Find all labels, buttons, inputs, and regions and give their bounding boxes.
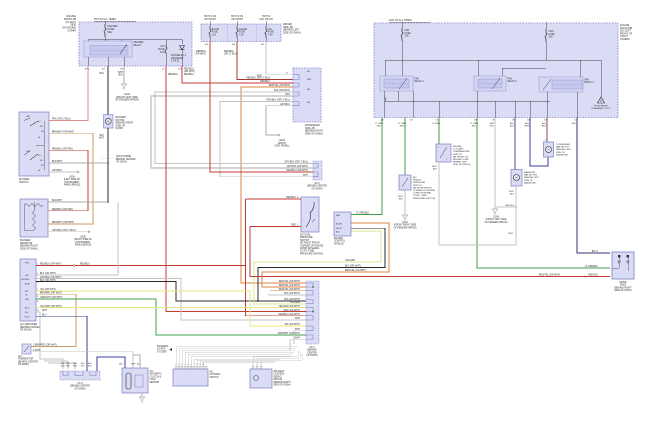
svg-text:RED: RED [542, 126, 547, 128]
svg-text:BLK: BLK [510, 194, 515, 196]
svg-text:RED/YEL: RED/YEL [588, 275, 599, 277]
svg-text:GAUGE: GAUGE [239, 28, 248, 31]
resistor elements [24, 202, 43, 230]
a/c control switch box [173, 366, 208, 386]
svg-text:4: 4 [37, 273, 38, 275]
svg-text:RADIATOR): RADIATOR) [556, 153, 568, 156]
svg-text:IGN: IGN [25, 275, 29, 277]
svg-text:RED/BLU: RED/BLU [184, 74, 194, 76]
condenser fan motor box [544, 142, 554, 157]
svg-text:BLU: BLU [572, 123, 577, 125]
svg-text:J/C 3: J/C 3 [77, 383, 83, 385]
svg-text:BRN/WHT (OR WHT): BRN/WHT (OR WHT) [52, 222, 74, 224]
svg-text:RED/YEL (OR WHT): RED/YEL (OR WHT) [269, 85, 290, 87]
svg-text:BLU: BLU [119, 364, 123, 366]
svg-text:A/C: A/C [25, 290, 29, 293]
svg-text:GRY/BLK (OR WHT): GRY/BLK (OR WHT) [40, 277, 62, 279]
label blower motor [116, 116, 134, 130]
svg-text:RED/YEL (OR WHT): RED/YEL (OR WHT) [345, 270, 366, 272]
svg-text:(BEHIND: (BEHIND [307, 350, 317, 352]
svg-text:FAN: FAN [415, 78, 420, 81]
svg-text:OF DASH: OF DASH [116, 161, 127, 164]
svg-text:RED 1: RED 1 [291, 225, 298, 227]
svg-text:WHT: WHT [303, 175, 309, 177]
svg-text:LOCK: LOCK [24, 317, 30, 319]
svg-text:RED/YEL (OR WHT): RED/YEL (OR WHT) [279, 285, 300, 287]
wire BLK/WHT blower motor down [99, 131, 109, 203]
svg-text:SIDE OF DASH): SIDE OF DASH) [283, 31, 301, 34]
svg-text:10: 10 [37, 301, 39, 303]
wire YEL/GRN amp pin12 to J/C4 [36, 306, 306, 312]
svg-text:SWITCH: SWITCH [19, 181, 29, 184]
svg-text:M: M [516, 177, 518, 180]
svg-text:AIR INLET: AIR INLET [274, 370, 286, 373]
svg-text:J/C 5: J/C 5 [314, 183, 320, 185]
wire RED/BLU a/c fuse long to J/C4 [166, 66, 306, 312]
svg-text:30A: 30A [405, 35, 410, 38]
svg-text:PNK (OR LT BLU): PNK (OR LT BLU) [52, 119, 71, 121]
svg-text:LOCK: LOCK [150, 379, 157, 381]
label a/c amplifier [20, 323, 41, 332]
label J/C4 [307, 347, 318, 357]
svg-text:3: 3 [182, 364, 183, 366]
svg-text:GRN/WHT (OR WHT): GRN/WHT (OR WHT) [278, 333, 301, 335]
svg-text:SIDE OF DASH): SIDE OF DASH) [305, 132, 323, 135]
ground G103 [275, 139, 290, 148]
wire RED/BLU diode branch down [184, 69, 195, 74]
svg-text:OF DASH): OF DASH) [20, 329, 32, 332]
svg-text:FROM RELAY: FROM RELAY [594, 105, 609, 108]
fuse A/C 10A [158, 45, 167, 54]
svg-text:A/C: A/C [150, 370, 154, 373]
svg-text:WHT: WHT [99, 138, 105, 140]
svg-text:WHT: WHT [508, 233, 514, 235]
svg-text:8: 8 [197, 364, 198, 366]
label passenger side J/B [305, 124, 323, 135]
wire LT GRN to coolant switch [432, 118, 440, 145]
svg-text:CIG: CIG [268, 29, 272, 31]
svg-text:RED/YEL (OR WHT): RED/YEL (OR WHT) [279, 289, 300, 291]
wires servo bundle [253, 350, 302, 366]
svg-text:BLK (OR WHT): BLK (OR WHT) [284, 299, 300, 301]
svg-text:RED/BLU: RED/BLU [168, 74, 178, 76]
svg-text:DIODE: DIODE [619, 282, 627, 284]
wire GRY/BLK pJB pin16 to J/C5 pin4 [220, 100, 313, 177]
wire RED/BLU gauge fuse to pJB pin24 [224, 42, 293, 80]
wire RED/YEL orange pJB pin10 down [241, 85, 306, 283]
svg-text:10: 10 [202, 364, 204, 366]
svg-text:G104: G104 [493, 217, 499, 219]
svg-text:1: 1 [176, 364, 177, 366]
svg-text:BLU: BLU [61, 365, 65, 367]
wire BLU clutch pin [97, 357, 125, 371]
svg-text:2 WHT: 2 WHT [33, 350, 41, 352]
wire BLK/WHT switch to motor net [49, 161, 108, 163]
fuse ECU-B [209, 21, 219, 42]
label air inlet servo [274, 370, 292, 387]
label ECM [334, 238, 346, 245]
svg-text:CONTROL: CONTROL [210, 374, 222, 376]
svg-text:GRY/BLK: GRY/BLK [505, 205, 515, 207]
svg-text:INTERIOR: INTERIOR [157, 346, 168, 348]
svg-text:(BEHIND RIGHT: (BEHIND RIGHT [614, 287, 632, 289]
wire BLU/BLK to radiator fan [510, 118, 515, 171]
svg-text:SG: SG [25, 312, 28, 314]
svg-text:BLK: BLK [100, 135, 105, 137]
svg-text:6: 6 [191, 364, 192, 366]
junction block driver side J/B box [201, 24, 281, 42]
svg-text:BLK (OR WHT): BLK (OR WHT) [40, 273, 56, 275]
svg-text:G101: G101 [402, 222, 408, 224]
wire BLU/RED to condenser fan [542, 118, 547, 143]
wire RED/BLU amp pin2 [36, 263, 246, 266]
svg-text:DASH): DASH) [116, 127, 124, 130]
svg-text:7.5A: 7.5A [268, 33, 273, 36]
svg-text:TEMPERATURE: TEMPERATURE [453, 150, 470, 153]
wire relay pins to box edge [88, 53, 182, 66]
svg-text:12: 12 [37, 310, 39, 312]
svg-text:COMP, INTEGRAL: COMP, INTEGRAL [300, 247, 320, 250]
svg-text:FAN MOTOR: FAN MOTOR [524, 174, 537, 177]
wire YEL/GRN ECM to JC4 [254, 231, 381, 304]
junction connector J/C4 [306, 281, 319, 344]
wire RED/BLK switch to resistor [48, 149, 88, 211]
svg-text:RED: RED [73, 365, 78, 367]
svg-text:BLK: BLK [100, 73, 105, 75]
svg-text:RED/BLU: RED/BLU [184, 69, 194, 71]
svg-text:ENGINE: ENGINE [334, 238, 343, 240]
a/c single pressure switch box [399, 175, 411, 190]
svg-text:BLK: BLK [137, 364, 141, 366]
svg-text:YEL: YEL [81, 365, 85, 367]
engine coolant temperature switch box [436, 144, 451, 162]
svg-text:BLK (OR WHT): BLK (OR WHT) [345, 266, 361, 268]
wire RED dual pressure pin2 [250, 225, 610, 278]
svg-text:WHT: WHT [295, 318, 301, 320]
svg-text:INSTRUMENT: INSTRUMENT [75, 242, 91, 244]
wire red vertical dual pressure / J/C4 [245, 199, 306, 316]
wire WHT/BLK to ground G102 [118, 66, 127, 89]
svg-text:A236: A236 [69, 176, 75, 179]
svg-text:WHT: WHT [118, 72, 124, 74]
svg-text:RELAY 1: RELAY 1 [415, 80, 425, 83]
svg-text:INSTRUMENT: INSTRUMENT [64, 182, 80, 184]
wire BRN/RED amp pin8 to thermistor [31, 293, 76, 347]
wire WHT/BLK to G101 [398, 190, 408, 220]
label J/C3 [70, 383, 90, 390]
svg-text:OF FENDER APRON): OF FENDER APRON) [394, 226, 417, 229]
label HOT IN ON OR START 2 [231, 15, 244, 21]
svg-text:COMP): COMP) [68, 30, 77, 33]
svg-text:I4D: I4D [307, 71, 311, 73]
wire BRN/WHT switch to resistor [48, 132, 93, 225]
svg-text:SYSTEM: SYSTEM [157, 351, 167, 353]
wire fuse feed [104, 21, 106, 24]
pin labels bottom [85, 69, 182, 71]
blower switch internals [24, 116, 45, 172]
svg-text:GRY/BLK (OR LT BLU): GRY/BLK (OR LT BLU) [266, 100, 290, 102]
svg-text:SWITCH: SWITCH [210, 377, 219, 379]
svg-text:HOT AT ALL TIMES: HOT AT ALL TIMES [94, 18, 116, 21]
svg-text:MOTOR: MOTOR [274, 379, 283, 381]
svg-text:FAN: FAN [336, 214, 340, 217]
fuse FAN 30A [401, 22, 411, 41]
wire WHT thermistor pin2 [31, 350, 133, 368]
wire GRN/WHT amp pin10 to J/C4 [36, 297, 306, 335]
svg-text:A/C: A/C [18, 355, 22, 358]
wire RED/BLU fuse1 to J/C5 [195, 42, 313, 173]
a/c magnetic clutch box [122, 368, 148, 393]
svg-text:GRY/BLK (OR LT BLU): GRY/BLK (OR LT BLU) [52, 230, 76, 232]
svg-text:10A: 10A [160, 51, 165, 54]
svg-text:SIDE OF DASH): SIDE OF DASH) [274, 384, 291, 387]
svg-text:YEL (OR WHT): YEL (OR WHT) [284, 324, 300, 326]
svg-text:CONTROL: CONTROL [274, 374, 286, 376]
svg-text:BLK: BLK [119, 75, 124, 77]
wire GRY/BLK pJB pin13 to ground G103 [266, 104, 293, 136]
svg-text:RED/BLU: RED/BLU [196, 51, 206, 53]
wire BLK amp pin4 [36, 202, 118, 275]
wire BLK clutch pin [133, 355, 140, 368]
diode fan box [612, 252, 634, 279]
svg-text:GRY/BLK: GRY/BLK [52, 170, 62, 172]
svg-text:WHT: WHT [131, 364, 136, 366]
svg-text:BLK 3: BLK 3 [592, 251, 599, 253]
svg-text:(BEHIND RIGHT: (BEHIND RIGHT [274, 382, 292, 384]
ground G102 label [115, 93, 139, 102]
svg-text:TACH: TACH [336, 227, 342, 230]
svg-text:YEL (OR WHT): YEL (OR WHT) [40, 289, 56, 291]
svg-text:CLUTCH &: CLUTCH & [150, 376, 162, 378]
svg-text:PANEL BRACE): PANEL BRACE) [64, 184, 81, 187]
svg-text:RED/BLU (OR LT BLU): RED/BLU (OR LT BLU) [246, 78, 270, 80]
svg-text:7.5A: 7.5A [239, 33, 244, 36]
label dual pressure switch [300, 234, 324, 256]
svg-text:RED/BLU: RED/BLU [224, 51, 234, 53]
svg-text:(OR WHT): (OR WHT) [184, 71, 195, 73]
svg-text:4: 4 [185, 364, 186, 366]
svg-text:BLK (OR WHT): BLK (OR WHT) [40, 280, 56, 282]
svg-text:2 OF 2): 2 OF 2) [171, 60, 179, 63]
wire radiator fan ground [508, 186, 516, 245]
svg-text:GRY/BLK (OR WHT): GRY/BLK (OR WHT) [287, 166, 309, 168]
wire RED/BLU engine JB to pJB pin15 [182, 66, 293, 83]
svg-text:10A: 10A [212, 33, 217, 36]
svg-text:(LEFT SIDE OF: (LEFT SIDE OF [64, 179, 81, 181]
svg-text:BLK: BLK [472, 126, 477, 128]
svg-text:OR START: OR START [204, 18, 216, 21]
svg-text:2: 2 [179, 364, 180, 366]
fuse CDS 30A [545, 22, 555, 42]
wire BLK branch to ECM [257, 228, 385, 302]
svg-text:ACM: ACM [25, 283, 30, 286]
svg-text:(RIGHT SIDE OF: (RIGHT SIDE OF [74, 239, 92, 241]
svg-text:I4G: I4G [307, 102, 311, 104]
svg-text:5: 5 [37, 282, 38, 284]
wire WHT clutch label [131, 364, 141, 366]
wire BLU to diode fan [572, 118, 610, 254]
svg-text:A/C: A/C [210, 371, 214, 374]
svg-text:BLK (OR WHT): BLK (OR WHT) [274, 90, 290, 92]
svg-text:2: 2 [545, 140, 546, 142]
wire PNK blower switch feed [49, 66, 88, 121]
svg-text:7: 7 [37, 289, 38, 291]
label single pressure switch [413, 176, 436, 200]
wire RED/YEL JC4 pin2 stub [262, 223, 389, 287]
svg-text:HOT AT ALL TIMES: HOT AT ALL TIMES [389, 18, 412, 22]
a/c thermistor box [22, 344, 31, 354]
svg-text:4H: 4H [102, 69, 105, 71]
svg-text:THERMISTOR: THERMISTOR [18, 359, 33, 361]
pin ticks control switch [176, 364, 204, 366]
wire YEL amp pin7 to J/C4 [36, 289, 306, 326]
svg-text:LIGHTS: LIGHTS [157, 349, 166, 351]
wire LT GRN/BLK to diode fan [470, 118, 610, 269]
svg-text:1: 1 [446, 159, 447, 161]
svg-text:BLK/WHT: BLK/WHT [52, 200, 63, 202]
label engine room R/B [620, 24, 633, 41]
svg-text:WHT: WHT [295, 337, 301, 339]
svg-text:J/C 4: J/C 4 [309, 347, 315, 349]
ground G101 label [394, 222, 417, 229]
svg-text:(BEHIND CENTER: (BEHIND CENTER [307, 186, 327, 188]
svg-text:WHT: WHT [525, 126, 531, 128]
wire R/B bus2 [384, 91, 577, 118]
junction block engine room R/B box [374, 23, 618, 118]
wire thermistor pin1 label [33, 345, 57, 347]
svg-text:GRY/BLK: GRY/BLK [280, 104, 290, 106]
wire BLK amp pin6 to J/C4 [36, 280, 306, 301]
a/c amplifier box [20, 259, 36, 321]
label coolant temp switch [453, 146, 471, 166]
wire BLK engine JB to blower motor [100, 66, 108, 115]
svg-text:RED/BLK (OR PNK): RED/BLK (OR PNK) [52, 209, 73, 211]
svg-text:YEL/GRN (OR WHT): YEL/GRN (OR WHT) [40, 306, 62, 308]
svg-text:RED/BLU (OR WHT): RED/BLU (OR WHT) [287, 170, 309, 172]
svg-text:9: 9 [200, 364, 201, 366]
svg-text:BLK: BLK [490, 126, 495, 128]
svg-text:(AT FRONT OF: (AT FRONT OF [453, 155, 469, 158]
svg-text:LO: LO [38, 155, 41, 157]
svg-text:SWITCH: SWITCH [300, 240, 309, 242]
relay FAN RELAY 1 [380, 76, 424, 91]
junction block passenger side J/B box [293, 68, 321, 122]
svg-text:(AT RIGHT FRONT: (AT RIGHT FRONT [300, 242, 320, 245]
svg-text:GRY/BLK (OR LT BLU): GRY/BLK (OR LT BLU) [284, 162, 308, 164]
wire R/B bus1 [385, 41, 601, 97]
svg-text:PRG: PRG [25, 263, 30, 265]
label blower switch [19, 178, 30, 184]
svg-text:M: M [107, 120, 109, 123]
svg-text:RED/BLU: RED/BLU [80, 264, 90, 266]
svg-text:OR START: OR START [231, 18, 243, 21]
wire internal bus [88, 37, 182, 45]
svg-text:GROUND: GROUND [21, 279, 30, 281]
label driver side J/B [283, 23, 301, 34]
blower motor box [104, 115, 114, 132]
wire GRY/BLK resistor to A236 right [48, 230, 91, 233]
svg-text:BRN/WHT (OR WHT): BRN/WHT (OR WHT) [52, 132, 74, 134]
svg-text:BLK: BLK [510, 126, 515, 128]
svg-text:TO A/C TUBE: TO A/C TUBE [413, 194, 427, 197]
label A236 right [74, 236, 92, 247]
relay FAN RELAY 3 [539, 77, 594, 92]
svg-text:(FRONT LEFT SIDE: (FRONT LEFT SIDE [486, 219, 507, 221]
wire LT GRN/BLK ECM fan [351, 118, 382, 215]
svg-text:RELAY: RELAY [134, 44, 142, 47]
wire BLU amp pin14 to J/C3 [36, 315, 87, 372]
svg-text:GRN/WHT (OR WHT): GRN/WHT (OR WHT) [40, 297, 63, 299]
svg-text:RED/BLK (OR PNK): RED/BLK (OR PNK) [52, 149, 73, 151]
svg-text:MODULE: MODULE [334, 243, 344, 245]
fuse HEATER 50A [104, 24, 118, 37]
svg-text:WHT: WHT [42, 310, 48, 312]
svg-text:SIDE OF DASH): SIDE OF DASH) [20, 247, 38, 250]
junction connector J/C3 [60, 371, 100, 380]
svg-text:FUSE: FUSE [212, 32, 219, 34]
wire WHT amp pin13 [36, 310, 63, 359]
svg-text:YEL/GRN: YEL/GRN [345, 260, 355, 262]
svg-text:RADIATOR): RADIATOR) [524, 181, 536, 184]
svg-text:LT GRN/BLK: LT GRN/BLK [356, 213, 370, 215]
label A236 left [64, 176, 81, 187]
svg-text:A/C: A/C [413, 176, 417, 179]
svg-text:RED/BLU: RED/BLU [260, 81, 270, 83]
wire BLK(OR WHT) pJB pin21 to J/C5 [155, 90, 313, 164]
svg-text:PRESSURE SWITCH): PRESSURE SWITCH) [300, 253, 323, 255]
label a/c control switch [210, 371, 222, 379]
wire WHT cig fuse to pJB pin27 [257, 42, 293, 78]
svg-text:TOWER): TOWER) [620, 38, 630, 41]
svg-text:(DIAGRAM 1 OF 2): (DIAGRAM 1 OF 2) [592, 107, 611, 110]
wire RED/BLU dual pressure pin1 [246, 197, 302, 199]
svg-text:RED: RED [66, 365, 71, 367]
svg-text:WHT: WHT [295, 329, 301, 331]
svg-text:FAN: FAN [508, 78, 513, 81]
junction block engine room J/B box [62, 15, 192, 66]
svg-text:FUSE: FUSE [239, 32, 246, 34]
svg-text:PRESSURE SWITCH): PRESSURE SWITCH) [413, 198, 435, 200]
svg-text:LT GRN/BLK: LT GRN/BLK [585, 266, 599, 268]
svg-text:CORNER OF ENGINE: CORNER OF ENGINE [300, 245, 324, 247]
svg-text:7H 2: 7H 2 [120, 69, 125, 71]
svg-text:ACC OR ON: ACC OR ON [259, 18, 273, 21]
label dash wire boundary [101, 155, 136, 164]
svg-text:YEL/GRN (OR WHT): YEL/GRN (OR WHT) [278, 306, 300, 308]
svg-text:BLK (OR WHT): BLK (OR WHT) [284, 293, 300, 295]
svg-text:BRN/RED (OR WHT): BRN/RED (OR WHT) [40, 293, 62, 295]
svg-text:A/C DUAL: A/C DUAL [300, 234, 311, 237]
svg-text:KICK PANEL): KICK PANEL) [275, 145, 290, 148]
svg-text:OF DASH): OF DASH) [75, 387, 86, 390]
label a/c magnetic clutch [150, 370, 162, 384]
radiator fan motor box [511, 170, 522, 187]
blower resistor box [20, 199, 48, 237]
svg-text:YEL/GRN: YEL/GRN [290, 302, 300, 304]
relay FAN RELAY 2 [474, 76, 517, 91]
diode FAN RELAY 3 symbol [171, 46, 187, 63]
svg-text:FUSE: FUSE [268, 32, 275, 34]
svg-text:M: M [548, 149, 550, 152]
svg-text:(BEHIND CENTER: (BEHIND CENTER [70, 386, 90, 388]
label blower resistor [20, 239, 38, 250]
label interior lights [157, 346, 172, 353]
svg-text:OF FENDER APRON): OF FENDER APRON) [115, 99, 139, 102]
wire WHT/BLK coolant switch down [432, 162, 516, 245]
label diode fan [614, 282, 632, 292]
junction connector J/C5 [313, 161, 322, 180]
blower switch box [19, 112, 49, 176]
